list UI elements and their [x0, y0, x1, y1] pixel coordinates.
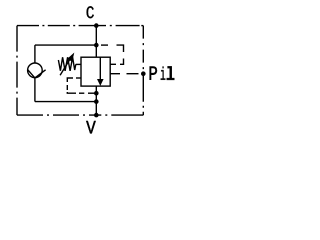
wire check valve top: [34, 45, 36, 63]
node dot: drain junction: [94, 91, 99, 96]
node dot: port Pil on envelope: [141, 71, 146, 76]
check valve CV1 seat: [28, 69, 46, 78]
pilot line to port Pil: dash 3: [142, 73, 144, 75]
relief valve RV1 internal flow line: [99, 57, 101, 80]
adjustment arrow head: [67, 53, 74, 62]
envelope border left (dash-dot): [16, 26, 18, 116]
envelope border bottom right (dash-dot): [96, 114, 143, 116]
pilot line from node C: dash 1: [101, 44, 108, 46]
envelope border right upper (dash-dot): [142, 26, 144, 74]
drain line: corner dash 2: [67, 78, 73, 82]
label V: [86, 121, 95, 133]
adjustment arrow shaft: [60, 58, 71, 76]
pilot line from node C: corner dash 3: [120, 59, 124, 65]
wire bottom branch horizontal: [35, 101, 96, 103]
node dot: bottom branch junction: [94, 99, 99, 104]
drain line: dash 5: [79, 92, 84, 94]
pilot line from node C: corner dash 2: [117, 45, 124, 52]
spring (zigzag): [58, 57, 75, 71]
drain line: dash 1 from body: [76, 77, 81, 79]
envelope border top right corner nub: [141, 25, 143, 27]
envelope border top (dash-dot): [17, 25, 96, 27]
envelope border right lower (dash-dot): [142, 74, 144, 115]
node dot: C branch junction: [94, 43, 99, 48]
drain line: corner dash 4: [67, 92, 76, 93]
label C: [87, 6, 94, 18]
label Pil - i: [161, 67, 166, 80]
spring stub to body: [76, 63, 81, 65]
wire port C to branch node: [95, 26, 97, 58]
check valve CV1 ball: [28, 63, 43, 78]
wire check valve bottom: [34, 78, 36, 102]
drain line: dash 6 to outlet: [88, 92, 96, 94]
drain line: dash 3: [66, 85, 68, 90]
envelope border bottom left (dash-dot): [17, 114, 96, 116]
wire top branch horizontal: [35, 44, 96, 46]
label Pil - l: [167, 66, 175, 79]
relief valve RV1 flow arrow head: [97, 79, 104, 86]
label Pil - P: [150, 67, 157, 80]
pilot line to port Pil: dash 2: [127, 73, 139, 75]
wire valve outlet vertical: [95, 86, 97, 115]
relief valve RV1 body: [81, 57, 110, 86]
pilot line from node C: dash 4 into body: [110, 63, 116, 65]
envelope border top right (dash-dot): [96, 25, 139, 27]
node dot: port V on envelope: [94, 113, 99, 118]
node dot: port C on envelope: [94, 23, 99, 28]
pilot line to port Pil: dash 1: [110, 73, 120, 75]
